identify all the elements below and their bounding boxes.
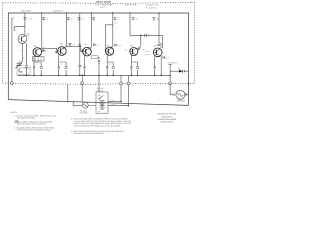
part box label [92,56,99,59]
svg-text:NOTES:: NOTES: [11,111,18,114]
wire interstage coupling top [130,35,163,49]
capacitor C8 [65,67,68,68]
node emitter bus dot D [65,75,67,77]
wire oscillator feed [14,13,25,35]
wire volume drop left [67,84,69,102]
node emitter bus dot A [26,75,28,77]
svg-text:.02: .02 [46,18,49,21]
capacitor Q4b left glyph [81,49,82,51]
node ground junction left [11,82,14,85]
capacitor C13 bus bypass [114,18,117,21]
node emitter bus dot F [131,75,133,77]
svg-text:CIRCUIT BOARD: CIRCUIT BOARD [96,0,112,3]
capacitor Q6 right glyph [138,48,139,50]
transistor Q4b [83,47,92,56]
wire Q4b emitter drop [84,56,86,76]
svg-text:.05: .05 [135,17,138,20]
svg-text:SPEAKER: SPEAKER [177,100,186,103]
svg-text:1.2 VOLTS: 1.2 VOLTS [168,61,178,64]
wire battery taps [108,101,128,105]
label CIRCUIT BOARD [21,0,194,12]
capacitor mid upper [79,44,82,45]
node bus detector dot [169,75,171,77]
node emitter bus dot B [33,75,35,77]
resistor R5 [58,66,60,69]
wire IF feed vertical [79,13,81,47]
node bus dot mid2 [81,75,83,77]
svg-text:.02: .02 [148,33,150,36]
potentiometer volume control [82,102,88,108]
wire Q2 emitter components [34,56,41,76]
title block text [157,113,176,124]
capacitor C10 bus bypass [78,18,81,21]
svg-text:Q5: Q5 [106,44,109,47]
node ground junction bat2 [127,82,130,85]
capacitor C7 series [55,51,58,53]
capacitor C17 [136,67,139,68]
capacitor C16 bus bypass [132,18,135,21]
node emitter bus dot Q4b [84,75,86,77]
svg-text:OSC-CONV: OSC-CONV [21,10,32,13]
transistor Q1 oscillator [18,35,27,44]
svg-text:10% UNLESS NOTED.: 10% UNLESS NOTED. [17,117,36,120]
wire Q7 collector [157,13,161,48]
wire pot feed [73,84,82,105]
resistor Q4b emitter [84,66,86,69]
node bus dot Q4b [91,12,92,13]
capacitor Q5a right [115,44,118,46]
notes text block right column [71,118,132,136]
node emitter bus dot G [154,75,156,77]
node emitter bus dot H [160,75,162,77]
wire Q2 Q3 coupling [41,48,57,51]
wire Q4b collector feed [88,13,91,49]
wire inner left rail [12,18,14,82]
wire B- outer loop [8,13,188,105]
wire Q3 collector [63,13,66,49]
svg-text:MODEL GR-24: MODEL GR-24 [160,121,173,124]
wire ground taps vertical [121,75,128,105]
wire Q6 emitter [155,56,162,75]
node ground junction bat1 [120,82,123,85]
transistor Q6 [130,48,138,56]
svg-text:VALUE SHOWN ON THE PARTS LIST: VALUE SHOWN ON THE PARTS LIST FOR THIS M… [74,125,122,128]
wire emitter bus [18,74,171,76]
wire ground stub mid [81,75,83,81]
svg-text:QUALIFIED SERVICE TECHNICIAN.: QUALIFIED SERVICE TECHNICIAN. [74,132,104,135]
svg-text:TR1: TR1 [26,34,29,37]
svg-text:.05: .05 [70,18,73,21]
node detector ground junction [169,82,172,85]
wire detector line [170,65,188,84]
capacitor C11 [69,43,72,46]
svg-text:Q2: Q2 [34,45,37,48]
node ground junction mid [81,82,84,85]
svg-text:GROUND AND CHASSIS GROUND.: GROUND AND CHASSIS GROUND. [17,123,47,126]
node coupling dot [140,35,142,37]
svg-text:Q4: Q4 [84,43,87,46]
resistor R8 [106,66,108,69]
wire Q5a collector feed [106,13,113,51]
capacitor C1 [24,18,27,21]
capacitor C5 [40,67,43,68]
svg-text:.02: .02 [81,17,84,20]
capacitor C3 bus bypass [42,18,45,21]
svg-text:Q7: Q7 [154,44,157,47]
circuit board dashed outline [3,2,195,84]
svg-text:.05: .05 [156,17,159,20]
notes text block left column [11,111,57,132]
node emitter bus dot F2 [137,75,139,77]
wire Q5a emitter components [107,55,113,75]
capacitor C18 coupling [145,34,147,37]
svg-text:C14: C14 [118,44,121,47]
wire bypass mid [78,47,81,75]
svg-text:CONNECTS TO: CONNECTS TO [146,3,159,6]
capacitor C19 bus bypass [153,18,156,21]
resistor R3 [33,66,35,69]
transistor Q2 [33,48,42,57]
resistor R7 drop [98,60,100,92]
coil box T1 [33,57,45,61]
resistor R12 [154,66,156,69]
wire Q1 emitter drop [19,43,22,72]
capacitor electrolytic C9 [25,44,28,76]
svg-text:P 1: P 1 [191,0,194,3]
node B- rail dot at dashed crossing [188,83,190,85]
connector speaker terminals [173,93,187,95]
wire Q3 emitter components [59,55,66,75]
svg-text:SCHEMATIC OF THE: SCHEMATIC OF THE [158,113,177,116]
node bus dot Q5a [112,12,114,14]
capacitor bus bypass 4 [92,18,95,21]
svg-text:C1 .05: C1 .05 [27,17,32,20]
svg-text:CONTROL: CONTROL [80,112,88,115]
node bus dot Q3 [66,12,67,13]
capacitor Q4b right glyph [94,44,97,46]
svg-text:Q6: Q6 [130,44,133,47]
node tap dot 1 [120,101,122,103]
svg-text:PART 1: PART 1 [96,4,102,7]
node coupling tap dot [66,46,67,47]
node emitter bus dot B2 [40,75,42,77]
node emitter bus dot E2 [112,75,114,77]
wire Q2 collector [41,13,43,48]
node bus dot Q6 [129,12,130,13]
transistor Q3 [58,47,67,56]
wire Q6 collector bus feed [129,13,131,35]
node emitter bus dot C [58,75,60,77]
svg-text:P-1 AND BD 2: P-1 AND BD 2 [146,6,157,9]
node tap dot 2 [128,105,130,107]
wire Q3 Q4 coupling [66,46,82,51]
node emitter bus dot E [106,75,108,77]
resistor R10 [130,66,132,69]
svg-text:.05: .05 [72,43,74,46]
speaker LS1 [176,90,185,99]
capacitor C15 [112,67,115,68]
svg-text:POINT INDICATED TO BOARD GROUN: POINT INDICATED TO BOARD GROUND. [17,129,52,132]
transistor Q5a [106,47,114,55]
capacitor C6 bus bypass [67,18,70,21]
capacitor Q2 side [42,49,45,52]
resistor box R-AGC [17,68,30,75]
svg-text:Q3: Q3 [60,43,63,46]
node bus dot Q7 [158,12,159,13]
capacitor variable tuning [16,63,23,68]
svg-text:C4: C4 [45,50,47,53]
wire Q6 emitter components [131,55,137,75]
svg-text:DET-AF AMP: DET-AF AMP [126,3,138,6]
svg-text:AMP-1ST IF: AMP-1ST IF [53,10,64,13]
wire speaker leads [170,83,188,94]
svg-text:2ND IF AMP: 2ND IF AMP [102,3,113,6]
symbol board ground glyph in note 2 [15,121,17,123]
transistor Q6 [153,48,162,57]
svg-text:.02: .02 [117,18,120,21]
node bus dot mid [79,75,81,77]
node bus dot R7 [98,75,100,77]
node bus dot Q2 [41,12,42,13]
capacitor Q7 right glyph [163,56,166,58]
diode D1 [179,70,183,73]
